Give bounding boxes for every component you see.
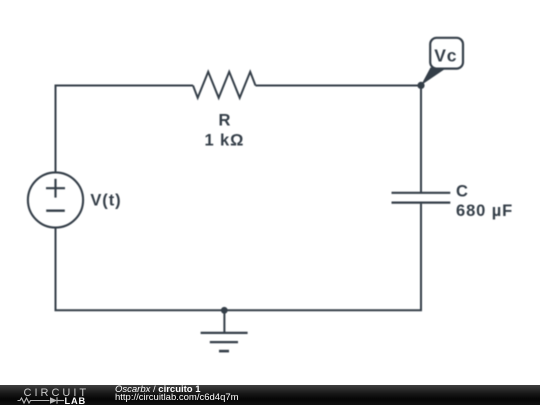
svg-text:1 kΩ: 1 kΩ bbox=[205, 132, 245, 150]
svg-text:680 µF: 680 µF bbox=[456, 202, 513, 220]
svg-text:V(t): V(t) bbox=[90, 192, 121, 210]
svg-text:Vc: Vc bbox=[434, 46, 457, 66]
svg-text:LAB: LAB bbox=[65, 396, 87, 406]
svg-text:R: R bbox=[218, 111, 231, 129]
svg-text:C: C bbox=[456, 182, 469, 200]
